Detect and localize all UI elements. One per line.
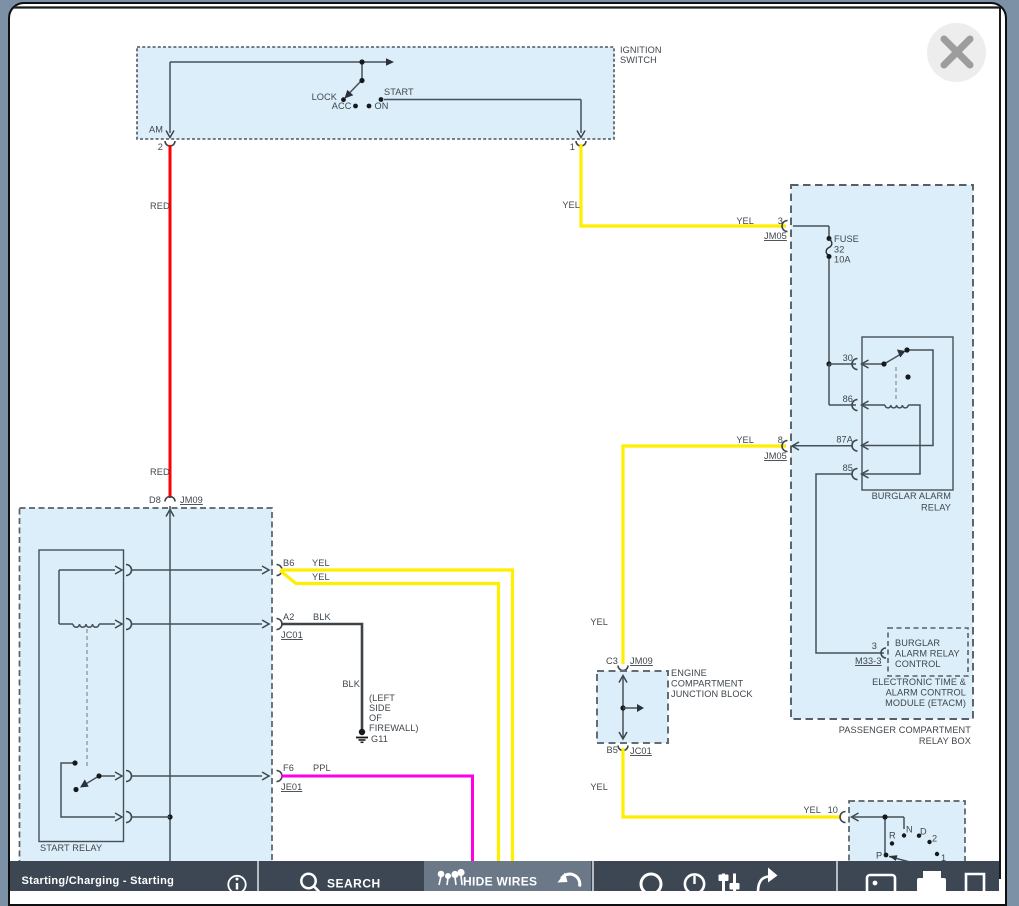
svg-text:HIDE WIRES: HIDE WIRES — [463, 875, 537, 889]
svg-text:G11: G11 — [371, 734, 388, 744]
burglar alarm relay control box (ETACM) — [872, 628, 968, 708]
svg-text:YEL: YEL — [562, 200, 580, 210]
svg-text:JM05: JM05 — [764, 231, 787, 241]
svg-text:RELAY BOX: RELAY BOX — [919, 736, 971, 746]
svg-text:YEL: YEL — [736, 216, 754, 226]
ignition switch arm arrowhead toward LOCK — [345, 90, 354, 99]
svg-text:RED: RED — [150, 201, 170, 211]
connector B5 JC01 — [607, 745, 652, 756]
start relay pin to A2 — [115, 619, 282, 630]
svg-text:JM09: JM09 — [630, 656, 653, 666]
svg-text:ELECTRONIC TIME &: ELECTRONIC TIME & — [872, 677, 966, 687]
engine compartment junction block — [597, 668, 753, 743]
svg-text:ENGINE: ENGINE — [671, 668, 707, 678]
svg-text:D: D — [920, 827, 927, 837]
wire YEL from B6 branch 2 — [280, 571, 499, 863]
page inner border top — [9, 6, 1001, 8]
start relay pin to F6 — [115, 771, 282, 782]
wire from pin 3 to fuse — [793, 226, 829, 364]
svg-text:YEL: YEL — [312, 558, 330, 568]
junction block internal bus — [619, 676, 644, 740]
ignition switch arrow to right — [386, 58, 394, 66]
start relay outer dashed box — [20, 508, 273, 900]
svg-text:P: P — [876, 851, 882, 861]
range switch position dots — [882, 814, 939, 857]
svg-text:START: START — [384, 87, 414, 97]
svg-text:SWITCH: SWITCH — [620, 55, 657, 65]
svg-text:R: R — [889, 831, 896, 841]
svg-text:Starting/Charging - Starting: Starting/Charging - Starting — [22, 875, 175, 887]
start relay switch arm arrowhead — [80, 779, 89, 787]
ground G11 — [356, 693, 419, 744]
svg-text:M33-3: M33-3 — [855, 656, 882, 666]
svg-text:10: 10 — [828, 805, 838, 815]
svg-text:ALARM RELAY: ALARM RELAY — [895, 649, 960, 659]
start relay bottom pin to junction — [115, 812, 170, 823]
svg-text:AM: AM — [149, 125, 163, 135]
svg-text:32: 32 — [834, 245, 844, 255]
ignition switch position labels — [149, 87, 414, 135]
start relay coil circuit — [59, 570, 115, 627]
svg-text:ACC: ACC — [332, 101, 352, 111]
svg-text:CONTROL: CONTROL — [895, 659, 941, 669]
svg-text:D8: D8 — [149, 495, 161, 505]
svg-text:JM09: JM09 — [180, 495, 203, 505]
svg-text:FIREWALL): FIREWALL) — [369, 723, 419, 733]
connector JM05 pin 8 — [764, 441, 853, 462]
svg-text:2: 2 — [158, 142, 163, 152]
relay switch dots — [881, 347, 910, 379]
pin 2 of ignition switch — [158, 131, 175, 153]
connector JM05 pin 3 — [764, 216, 799, 241]
svg-text:YEL: YEL — [736, 435, 754, 445]
svg-text:BURGLAR: BURGLAR — [895, 638, 940, 648]
ignition switch box — [137, 45, 662, 139]
relay internal switch — [862, 350, 934, 446]
wire YEL from B5 to pin 10 — [590, 748, 841, 817]
svg-text:JE01: JE01 — [281, 782, 302, 792]
svg-text:PASSENGER COMPARTMENT: PASSENGER COMPARTMENT — [839, 725, 972, 735]
svg-text:SEARCH: SEARCH — [327, 876, 381, 890]
pin 1 of ignition switch — [570, 131, 586, 153]
svg-text:PPL: PPL — [313, 763, 331, 773]
wire RED from pin 2 to D8 — [150, 145, 170, 498]
svg-text:(LEFT: (LEFT — [369, 693, 395, 703]
svg-text:3: 3 — [872, 641, 877, 651]
passenger compartment relay box — [791, 185, 973, 746]
svg-text:85: 85 — [843, 463, 853, 473]
svg-text:JC01: JC01 — [281, 630, 303, 640]
svg-text:87A: 87A — [836, 435, 853, 445]
start relay inner box — [39, 550, 124, 853]
page inner border right — [999, 7, 1001, 879]
relay pin 86 — [843, 394, 869, 411]
svg-text:JUNCTION BLOCK: JUNCTION BLOCK — [671, 689, 753, 699]
svg-text:C3: C3 — [606, 656, 618, 666]
svg-text:10A: 10A — [834, 255, 851, 265]
svg-text:F6: F6 — [283, 763, 294, 773]
svg-text:FUSE: FUSE — [834, 234, 859, 244]
svg-text:B5: B5 — [607, 745, 618, 755]
svg-text:JM05: JM05 — [764, 451, 787, 461]
svg-text:N: N — [906, 825, 913, 835]
burglar alarm relay box — [862, 337, 953, 513]
svg-text:START RELAY: START RELAY — [40, 843, 102, 853]
svg-text:30: 30 — [843, 353, 853, 363]
svg-text:YEL: YEL — [803, 805, 821, 815]
wire YEL from pin 1 to JM05 pin 3 — [562, 144, 786, 226]
svg-text:86: 86 — [843, 394, 853, 404]
svg-text:MODULE (ETACM): MODULE (ETACM) — [885, 698, 966, 708]
start relay pin to B6 — [115, 565, 282, 576]
start relay switch — [61, 763, 115, 817]
relay pin 85 — [843, 463, 869, 480]
node at fuse output feeding pins 30 and 86 — [826, 361, 856, 405]
svg-text:ON: ON — [375, 101, 389, 111]
relay switch arm arrowhead — [897, 350, 906, 358]
start relay switch dots — [72, 760, 101, 792]
svg-text:B6: B6 — [283, 558, 294, 568]
range switch wiring — [852, 817, 908, 862]
svg-text:IGNITION: IGNITION — [620, 45, 662, 55]
svg-text:COMPARTMENT: COMPARTMENT — [671, 679, 744, 689]
svg-text:1: 1 — [570, 142, 575, 152]
connector M33-3 pin 3 — [855, 641, 886, 666]
svg-text:SIDE: SIDE — [369, 703, 391, 713]
connector C3 JM09 — [606, 656, 653, 671]
svg-text:RELAY: RELAY — [921, 503, 951, 513]
connector pin 10 — [840, 812, 858, 823]
svg-text:2: 2 — [932, 834, 937, 844]
ignition switch wiring — [170, 62, 581, 133]
ignition switch position dots — [341, 59, 383, 108]
relay pin 30 — [843, 353, 869, 370]
svg-text:BLK: BLK — [342, 679, 360, 689]
wire YEL from B6 branch 1 — [281, 558, 513, 862]
svg-text:BURGLAR ALARM: BURGLAR ALARM — [872, 491, 951, 501]
junction wire through start relay box — [167, 506, 172, 861]
relay pin 87A — [836, 435, 868, 452]
svg-text:A2: A2 — [283, 612, 294, 622]
relay coil — [862, 405, 921, 474]
wire BLK from A2 to ground G11 — [281, 612, 362, 729]
wire from relay pin 85 to ETACM — [816, 474, 884, 653]
svg-text:YEL: YEL — [590, 782, 608, 792]
svg-text:RED: RED — [150, 467, 170, 477]
fuse 32 10A — [826, 234, 859, 265]
svg-text:BLK: BLK — [313, 612, 331, 622]
svg-text:OF: OF — [369, 713, 382, 723]
svg-text:ALARM CONTROL: ALARM CONTROL — [886, 688, 966, 698]
range switch arm arrowhead — [889, 855, 898, 861]
wire YEL JM05 pin 8 to relay 87A — [590, 435, 786, 664]
wire PPL from F6 — [281, 763, 473, 862]
relay mechanical link dashed — [895, 367, 897, 402]
start relay mechanical link dashed — [86, 629, 88, 766]
svg-text:YEL: YEL — [312, 572, 330, 582]
connector JM09 pin D8 — [149, 495, 203, 517]
range switch position labels — [876, 825, 946, 864]
svg-text:JC01: JC01 — [630, 746, 652, 756]
svg-text:YEL: YEL — [590, 617, 608, 627]
transmission range switch box — [849, 801, 965, 900]
